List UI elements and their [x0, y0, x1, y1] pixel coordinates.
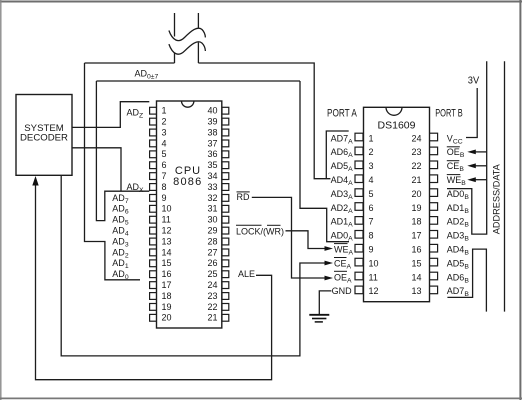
svg-text:22: 22 — [207, 302, 217, 312]
wire GND to ground — [319, 291, 331, 314]
svg-text:18: 18 — [162, 291, 172, 301]
svg-text:CEA: CEA — [334, 258, 352, 270]
svg-text:OEA: OEA — [334, 272, 352, 284]
svg-text:4: 4 — [162, 138, 167, 148]
svg-text:AD4B: AD4B — [447, 245, 470, 257]
label VCC (DS1609 pin 24) — [447, 133, 463, 145]
wire bus arrow to CEB — [467, 163, 486, 168]
wire AD bus lower segment — [96, 80, 300, 82]
svg-text:36: 36 — [207, 149, 217, 159]
wire address/data bus line 1 with AD0B-AD3B bracket — [447, 61, 487, 234]
svg-text:AD3A: AD3A — [331, 189, 354, 201]
DS1609 right pin boxes 24-13 — [430, 133, 438, 294]
svg-text:PORT B: PORT B — [435, 108, 463, 120]
svg-text:GND: GND — [332, 286, 353, 296]
svg-text:10: 10 — [369, 258, 379, 268]
svg-text:5: 5 — [162, 149, 167, 159]
label AD0 (CPU pin 16) — [112, 269, 129, 281]
svg-text:20: 20 — [162, 313, 172, 323]
label AD6B (DS1609 pin 14) — [447, 272, 470, 284]
svg-text:1: 1 — [162, 106, 167, 116]
svg-text:30: 30 — [207, 215, 217, 225]
label PORT A — [327, 108, 357, 120]
wire AD7A bracket — [326, 131, 348, 179]
wire LOCK/(WR) to WEA with arrow — [286, 231, 334, 251]
label AD2 (CPU pin 14) — [112, 247, 129, 259]
svg-text:AD7A: AD7A — [331, 133, 354, 145]
svg-text:AD0±7: AD0±7 — [135, 69, 159, 81]
svg-text:14: 14 — [162, 247, 172, 257]
wire AD0 net (bus to CPU pin 16) — [85, 63, 141, 280]
svg-text:DS1609: DS1609 — [378, 119, 416, 131]
CPU 8086 U1 body — [157, 101, 222, 328]
svg-text:3: 3 — [162, 127, 167, 137]
wire bus stub B (top-right vertical to top border) — [197, 13, 199, 63]
label AD3B (DS1609 pin 17) — [447, 231, 470, 243]
svg-text:6: 6 — [369, 203, 374, 213]
break squiggle upper — [169, 28, 206, 40]
label AD7A (DS1609 pin 1) — [331, 133, 354, 145]
wire decoder CE loop to CEA with arrow — [61, 175, 333, 356]
svg-text:31: 31 — [207, 204, 217, 214]
svg-text:OEB: OEB — [447, 147, 465, 159]
svg-text:13: 13 — [411, 286, 421, 296]
svg-text:19: 19 — [411, 203, 421, 213]
label OEA (DS1609 pin 11) with overline — [334, 271, 352, 284]
label WEA (DS1609 pin 9) with overline — [334, 244, 354, 257]
label AD0A (DS1609 pin 8) — [331, 231, 354, 243]
svg-text:16: 16 — [411, 245, 421, 255]
svg-text:WEB: WEB — [447, 175, 467, 187]
svg-text:27: 27 — [207, 247, 217, 257]
svg-text:WEA: WEA — [334, 245, 354, 257]
svg-text:LOCK/(WR): LOCK/(WR) — [236, 226, 284, 236]
svg-text:14: 14 — [411, 272, 421, 282]
DS1609 left pin boxes 1-12 — [355, 133, 363, 294]
wire 3V to VCC — [466, 88, 477, 138]
label AD6A (DS1609 pin 2) — [331, 147, 354, 159]
svg-text:10: 10 — [162, 204, 172, 214]
label ALE (CPU pin 25) — [238, 269, 255, 279]
svg-text:3: 3 — [369, 161, 374, 171]
ground symbol — [309, 315, 329, 322]
svg-text:VCC: VCC — [447, 133, 463, 145]
svg-text:38: 38 — [207, 127, 217, 137]
svg-text:AD6A: AD6A — [331, 147, 354, 159]
svg-text:AD1A: AD1A — [331, 217, 354, 229]
DS1609 U2 body — [364, 107, 430, 301]
wire AD bus upper-left segment — [85, 62, 175, 64]
label PORT B — [435, 108, 463, 120]
svg-text:28: 28 — [207, 236, 217, 246]
svg-text:AD5B: AD5B — [447, 258, 470, 270]
svg-text:AD5A: AD5A — [331, 161, 354, 173]
svg-text:26: 26 — [207, 258, 217, 268]
svg-text:RD: RD — [237, 192, 250, 202]
svg-text:AD0B: AD0B — [447, 189, 470, 201]
label LOCK/(WR) (CPU pin 29) with overlines — [236, 225, 284, 236]
label AD3 (CPU pin 13) — [112, 236, 129, 248]
svg-text:8086: 8086 — [173, 176, 202, 188]
label ADDRESS/DATA — [491, 164, 501, 234]
svg-text:AD2B: AD2B — [447, 217, 470, 229]
break squiggle lower — [169, 42, 206, 54]
label ADZ (CPU pin 1) — [127, 107, 144, 119]
wire RD to OEA with arrow — [252, 197, 333, 280]
svg-text:8: 8 — [162, 182, 167, 192]
wire bus arrow to WEB — [467, 177, 486, 182]
svg-text:18: 18 — [411, 217, 421, 227]
svg-text:2: 2 — [162, 117, 167, 127]
wire AD4B-AD7B bracket to bus — [447, 249, 486, 312]
label AD1B (DS1609 pin 19) — [447, 203, 470, 215]
svg-text:37: 37 — [207, 138, 217, 148]
svg-text:12: 12 — [162, 226, 172, 236]
svg-text:23: 23 — [411, 147, 421, 157]
svg-text:40: 40 — [207, 106, 217, 116]
svg-text:35: 35 — [207, 160, 217, 170]
svg-text:19: 19 — [162, 302, 172, 312]
svg-text:9: 9 — [162, 193, 167, 203]
svg-text:4: 4 — [369, 175, 374, 185]
wire decoder to ADX net — [72, 148, 121, 191]
CPU right pin numbers 40-21 — [207, 106, 217, 323]
svg-text:20: 20 — [411, 189, 421, 199]
svg-text:7: 7 — [162, 171, 167, 181]
label AD2B (DS1609 pin 18) — [447, 217, 470, 229]
svg-text:34: 34 — [207, 171, 217, 181]
label CEB (DS1609 pin 22) with overline — [447, 161, 465, 173]
wire AD bus to AD0A (DS1609 pin 8) — [300, 81, 349, 242]
CPU right pin boxes 40-21 — [222, 107, 229, 321]
svg-text:33: 33 — [207, 182, 217, 192]
svg-text:ADDRESS/DATA: ADDRESS/DATA — [491, 164, 501, 234]
svg-text:8: 8 — [369, 231, 374, 241]
svg-text:22: 22 — [411, 161, 421, 171]
svg-text:ADZ: ADZ — [127, 107, 144, 119]
system decoder box — [16, 95, 72, 176]
svg-text:13: 13 — [162, 236, 172, 246]
svg-text:AD4A: AD4A — [331, 175, 354, 187]
svg-text:AD3B: AD3B — [447, 231, 470, 243]
wire bus arrow to OEB — [467, 150, 486, 155]
svg-text:AD2A: AD2A — [331, 203, 354, 215]
svg-text:11: 11 — [162, 215, 171, 225]
wire bus stub A (top-left vertical to top border) — [174, 13, 176, 63]
svg-text:PORT A: PORT A — [327, 108, 357, 120]
svg-text:15: 15 — [411, 258, 421, 268]
label OEB (DS1609 pin 23) with overline — [447, 147, 465, 159]
label GND (DS1609 pin 12) — [332, 286, 353, 296]
svg-text:12: 12 — [369, 286, 379, 296]
label AD1A (DS1609 pin 7) — [331, 217, 354, 229]
svg-text:ALE: ALE — [238, 269, 255, 279]
label AD3A (DS1609 pin 5) — [331, 189, 354, 201]
svg-text:AD1B: AD1B — [447, 203, 470, 215]
svg-text:17: 17 — [162, 280, 172, 290]
label AD2A (DS1609 pin 6) — [331, 203, 354, 215]
label AD4 (CPU pin 12) — [112, 226, 129, 238]
DS1609 right pin numbers 24-13 — [411, 133, 421, 296]
svg-text:11: 11 — [369, 272, 378, 282]
svg-text:CEB: CEB — [447, 161, 465, 173]
svg-text:21: 21 — [207, 313, 217, 323]
svg-text:23: 23 — [207, 291, 217, 301]
svg-text:6: 6 — [162, 160, 167, 170]
net label AD0±7 — [135, 69, 159, 81]
svg-text:1: 1 — [369, 133, 374, 143]
wire ALE to system decoder with arrow — [32, 176, 271, 380]
svg-text:15: 15 — [162, 258, 172, 268]
svg-text:29: 29 — [207, 226, 217, 236]
svg-text:AD7B: AD7B — [447, 286, 470, 298]
svg-text:2: 2 — [369, 147, 374, 157]
svg-text:24: 24 — [411, 133, 421, 143]
label AD6 (CPU pin 10) — [112, 204, 129, 216]
label CEA (DS1609 pin 10) with overline — [334, 258, 352, 271]
label WEB (DS1609 pin 21) with overline — [447, 175, 467, 187]
svg-text:32: 32 — [207, 193, 217, 203]
svg-text:25: 25 — [207, 269, 217, 279]
label AD5B (DS1609 pin 15) — [447, 258, 470, 270]
DS1609 left pin numbers 1-12 — [369, 133, 379, 296]
svg-text:16: 16 — [162, 269, 172, 279]
svg-text:AD0A: AD0A — [331, 231, 354, 243]
label AD5A (DS1609 pin 3) — [331, 161, 354, 173]
svg-text:17: 17 — [411, 231, 421, 241]
svg-text:AD6B: AD6B — [447, 272, 470, 284]
CPU left pin numbers 1-20 — [162, 106, 172, 323]
label AD0B (DS1609 pin 20) — [447, 189, 470, 201]
label AD4A (DS1609 pin 4) — [331, 175, 354, 187]
svg-text:21: 21 — [411, 175, 421, 185]
wire ADX net (bus to CPU pin 8) — [96, 81, 149, 221]
wire ADZ net (decoder to CPU pin 1) — [72, 102, 149, 128]
label AD5 (CPU pin 11) — [112, 215, 129, 227]
wire address/data bus line 2 — [504, 61, 506, 311]
svg-text:24: 24 — [207, 280, 217, 290]
svg-text:5: 5 — [369, 189, 374, 199]
wire AD bus to AD4A (DS1609 pin 4) — [198, 63, 330, 179]
svg-text:39: 39 — [207, 117, 217, 127]
label ADX (CPU pin 8) — [127, 182, 145, 194]
label 3V — [468, 75, 479, 87]
svg-text:7: 7 — [369, 217, 374, 227]
label AD1 (CPU pin 15) — [112, 258, 129, 270]
label AD7 (CPU pin 9) — [112, 193, 129, 205]
label AD4B (DS1609 pin 16) — [447, 245, 470, 257]
label RD (CPU pin 32) with overline — [237, 192, 250, 202]
svg-text:ADX: ADX — [127, 182, 145, 194]
label AD7B (DS1609 pin 13) — [447, 286, 470, 298]
svg-text:9: 9 — [369, 245, 374, 255]
svg-text:3V: 3V — [468, 75, 479, 87]
CPU left pin boxes 1-20 — [150, 107, 157, 321]
svg-text:DECODER: DECODER — [20, 132, 68, 143]
